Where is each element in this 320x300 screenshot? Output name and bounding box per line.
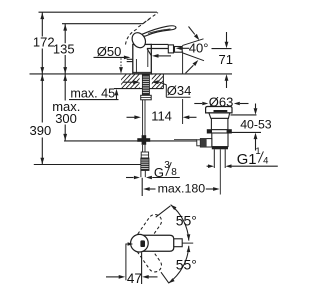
svg-text:300: 300 (55, 111, 77, 126)
svg-text:71: 71 (219, 52, 233, 67)
dim 55deg arcs (171, 205, 189, 241)
supply pipe (143, 100, 145, 136)
wire (62, 23, 143, 25)
hose fitting (137, 138, 150, 142)
drain body (211, 118, 228, 129)
svg-text:135: 135 (53, 42, 75, 57)
threaded shank (142, 74, 149, 95)
dim 40-53 (231, 104, 262, 151)
tailpipe axis (219, 149, 221, 192)
mounting nut (141, 95, 152, 100)
svg-text:55°: 55° (176, 213, 197, 229)
svg-text:max.180: max.180 (158, 182, 206, 196)
drain flange top (197, 107, 232, 150)
top view: handle swing dashed positions (131, 212, 164, 275)
drain neck (209, 113, 230, 119)
svg-text:Ø34: Ø34 (167, 83, 192, 98)
svg-text:G1: G1 (237, 152, 257, 168)
svg-text:390: 390 (30, 123, 52, 138)
svg-text:8: 8 (171, 167, 177, 178)
drain lock ring (207, 130, 231, 133)
dim 114 (127, 116, 197, 118)
faucet handle lever (129, 26, 175, 50)
label G1 1/4 thread (207, 165, 278, 167)
svg-text:172: 172 (33, 35, 55, 50)
svg-text:Ø63: Ø63 (209, 95, 234, 110)
center tick (182, 242, 193, 244)
G3/8 connector (141, 152, 148, 158)
top view: aerator (174, 239, 182, 247)
wire (34, 140, 197, 165)
top view: faucet capsule (131, 234, 183, 252)
spout aerator (168, 45, 182, 53)
label D34 hole (123, 82, 191, 97)
svg-text:114: 114 (151, 108, 172, 123)
dim max180 (142, 178, 220, 196)
tailpipe tube (214, 149, 225, 192)
svg-text:47: 47 (127, 271, 142, 286)
dim 71 (226, 32, 228, 88)
svg-text:G: G (154, 165, 164, 180)
wire (41, 12, 43, 36)
svg-text:1: 1 (255, 146, 260, 157)
svg-text:Ø50: Ø50 (97, 44, 122, 59)
label G3/8 thread (126, 177, 180, 179)
wire (39, 11, 158, 13)
faucet body side view (127, 44, 169, 74)
wire (182, 52, 184, 125)
wire (30, 73, 233, 75)
dim 40deg spray angle (176, 47, 182, 50)
drain lower body (212, 133, 228, 147)
wire (34, 164, 147, 166)
wire (64, 24, 66, 44)
svg-text:4: 4 (263, 155, 268, 166)
svg-text:55°: 55° (176, 257, 197, 273)
handle raised (dashed) (126, 13, 159, 45)
drain side port (197, 140, 201, 146)
svg-text:3: 3 (164, 160, 170, 171)
svg-text:max. 45: max. 45 (70, 87, 115, 101)
dim 47 (106, 244, 158, 284)
svg-text:40-53: 40-53 (240, 117, 272, 131)
